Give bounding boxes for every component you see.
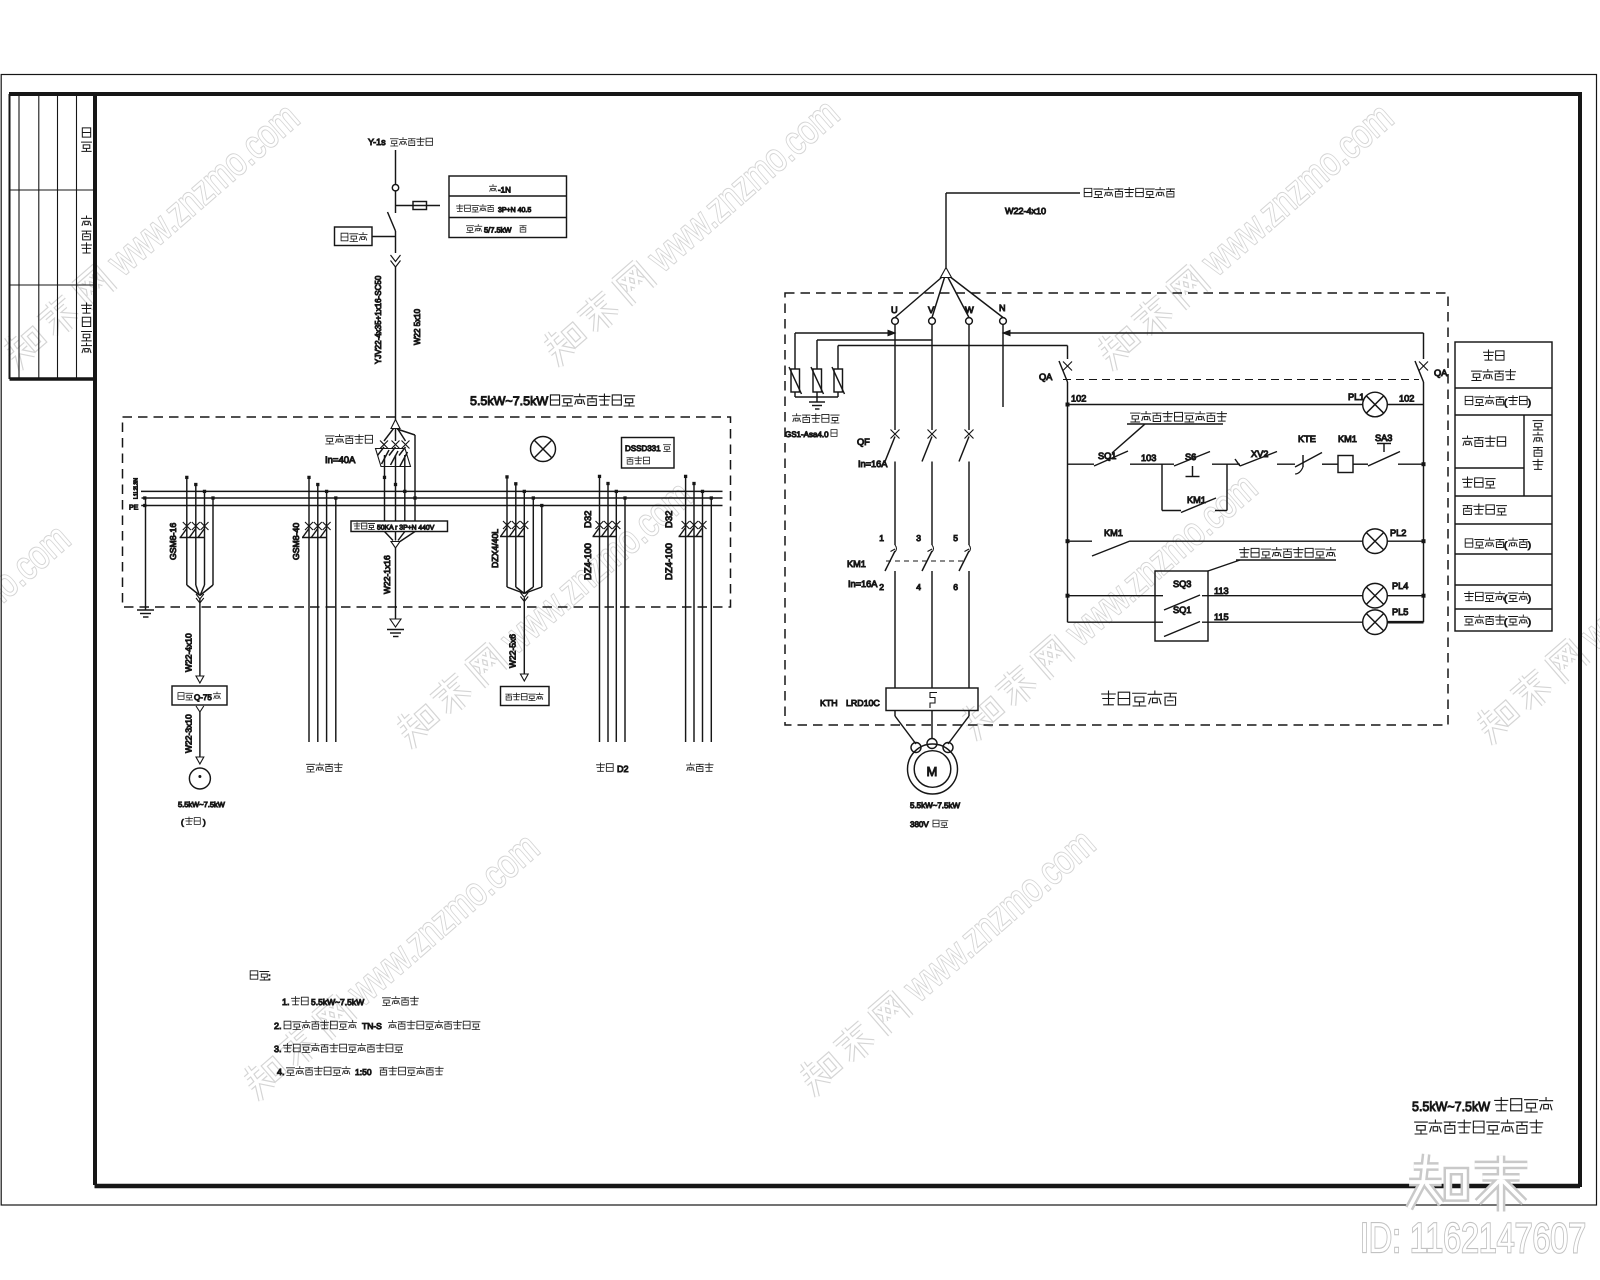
- motor M (5.5-7.5kW): [908, 739, 958, 795]
- svg-text:KTH: KTH: [820, 698, 838, 708]
- svg-text:QF: QF: [857, 437, 870, 447]
- surge protector SPD (60KA 3P+N): [351, 521, 448, 619]
- wire: N stub: [1002, 324, 1004, 407]
- svg-text:): ): [1528, 398, 1531, 408]
- svg-text:W22-4x10: W22-4x10: [184, 633, 194, 672]
- node: terminal N: [999, 303, 1006, 324]
- ground: PE earth drop: [137, 498, 154, 617]
- wire: control rail 5: [1068, 621, 1424, 623]
- svg-text:U: U: [891, 305, 898, 315]
- node: feeder splice (triangle): [895, 268, 1003, 318]
- svg-text:TN-S: TN-S: [362, 1021, 382, 1031]
- svg-text:DSSD331: DSSD331: [625, 444, 661, 453]
- ground: SPD earth electrode: [387, 619, 404, 637]
- svg-text:3: 3: [916, 533, 921, 543]
- svg-text::: :: [268, 972, 271, 983]
- svg-text:1.: 1.: [282, 997, 290, 1007]
- svg-text:5.5kW~7.5kW: 5.5kW~7.5kW: [470, 394, 548, 408]
- svg-text:KM1: KM1: [1187, 495, 1206, 505]
- svg-text:3.: 3.: [274, 1044, 282, 1054]
- svg-text:5.5kW~7.5kW: 5.5kW~7.5kW: [311, 997, 364, 1007]
- linkage: QA poles (dashed): [1063, 379, 1419, 381]
- switch QA (right pole): [1415, 333, 1448, 405]
- wire: U phase drop: [894, 324, 896, 430]
- svg-text:102: 102: [1071, 394, 1086, 404]
- breaker QF1 GSM8-16 branch: [180, 476, 215, 603]
- wire: branch1 cable W22-3x10: [184, 706, 204, 764]
- svg-text:GSM8-16: GSM8-16: [168, 523, 178, 560]
- svg-text:102: 102: [1399, 394, 1414, 404]
- notes text block: [250, 971, 480, 1077]
- contact KM1 auxiliary (self-hold): [1162, 464, 1227, 512]
- wire: motor leads: [895, 711, 969, 745]
- svg-text:): ): [203, 818, 206, 827]
- wire: right control rail: [1423, 405, 1425, 623]
- ground: arrester earth: [795, 397, 838, 409]
- svg-text:Q-75: Q-75: [194, 693, 212, 702]
- svg-text:V: V: [928, 305, 935, 315]
- label: distribution box title: [470, 394, 635, 408]
- svg-text:6: 6: [953, 582, 958, 592]
- svg-text:(: (: [181, 818, 184, 827]
- contactor KM1 main contacts (In=16A): [847, 545, 971, 688]
- breaker QF4 DZ4-100 D32 branch: [593, 475, 627, 742]
- busbar L3 line: [141, 490, 723, 492]
- label: SPD earth lead W22-1x16: [382, 555, 392, 594]
- label: feeder cable spec left: [374, 275, 383, 364]
- wire: control feed line (W tap to QA left): [838, 345, 1068, 347]
- label: pins 2 4 6: [879, 582, 958, 592]
- svg-text:113: 113: [1214, 586, 1229, 596]
- cable head arrow (down chevrons): [391, 255, 401, 267]
- thermal relay KTH LRD10C: [820, 688, 978, 711]
- label: QF0 name and rating: [325, 435, 373, 467]
- node: incoming supply label: [368, 137, 433, 147]
- svg-text:1:50: 1:50: [355, 1067, 372, 1077]
- svg-text:GSM8-40: GSM8-40: [291, 523, 301, 560]
- svg-text:SQ1: SQ1: [1173, 605, 1191, 615]
- svg-text:PL4: PL4: [1392, 581, 1408, 591]
- svg-text:5.5kW~7.5kW: 5.5kW~7.5kW: [1412, 1099, 1490, 1114]
- svg-text:PL2: PL2: [1390, 528, 1406, 538]
- node: terminal V: [928, 305, 935, 324]
- drawing title: [1412, 1098, 1553, 1135]
- arrester F1: [789, 333, 802, 397]
- wire: control return line (N tap to QA right): [1003, 330, 1424, 335]
- label: feeder cable W22-4x10: [1005, 206, 1046, 216]
- svg-text:W22-1x16: W22-1x16: [382, 555, 392, 594]
- arrester F2: [811, 340, 824, 397]
- metering box: [335, 227, 396, 246]
- meter DSSD331 (multi-function): [622, 438, 675, 469]
- svg-text:KTE: KTE: [1298, 434, 1316, 444]
- busbar N line: [142, 497, 723, 499]
- label: arrester name: [785, 414, 839, 439]
- svg-text:(: (: [1504, 540, 1507, 550]
- node 115: [1214, 612, 1229, 622]
- wire: control rail 2: [1068, 463, 1426, 466]
- svg-text:D32: D32: [664, 511, 675, 528]
- label: branch6 destination: [686, 763, 713, 772]
- svg-text:5: 5: [953, 533, 958, 543]
- svg-text:2: 2: [879, 582, 884, 592]
- svg-text:Y-1s: Y-1s: [368, 137, 386, 147]
- svg-text:D2: D2: [617, 764, 629, 774]
- wire: incoming feeder drop: [395, 150, 397, 184]
- contact XV2: [1235, 449, 1277, 466]
- label: GSM8-40: [291, 523, 301, 560]
- contact KTE (time relay): [1295, 434, 1322, 474]
- svg-text:(: (: [1504, 594, 1507, 604]
- svg-text:KM1: KM1: [1338, 434, 1357, 444]
- svg-text:SA3: SA3: [1375, 433, 1392, 443]
- svg-text:PL1: PL1: [1348, 392, 1364, 402]
- label: DZX4/40L: [490, 529, 500, 568]
- start control box (dashed enclosure): [785, 293, 1448, 725]
- svg-text:5.5kW~7.5kW: 5.5kW~7.5kW: [910, 801, 960, 810]
- breaker QF3 DZX4/40L branch: [500, 476, 543, 602]
- svg-text:KM1: KM1: [1104, 528, 1123, 538]
- svg-text:W: W: [965, 305, 974, 315]
- node 102 (right): [1399, 394, 1414, 404]
- label: busbar phase marks: [129, 478, 140, 512]
- busbar PE line: [141, 504, 722, 506]
- load box: pump switch box: [172, 686, 227, 705]
- svg-text:W22-4x10: W22-4x10: [1005, 206, 1046, 216]
- node 103: [1141, 453, 1156, 463]
- svg-text:XV2: XV2: [1251, 449, 1268, 459]
- svg-text:103: 103: [1141, 453, 1156, 463]
- node 102 (left): [1066, 394, 1086, 406]
- fuse FU1 branch: [396, 202, 441, 210]
- svg-text:DZX4/40L: DZX4/40L: [490, 529, 500, 568]
- svg-text:W22-5x6: W22-5x6: [508, 634, 518, 668]
- svg-text:DZ4-100: DZ4-100: [583, 543, 594, 580]
- svg-text:W22 5x10: W22 5x10: [413, 308, 422, 345]
- arrester F3: [832, 346, 845, 398]
- annotation: pump normal level switch: [1208, 548, 1336, 572]
- feeder description table: [449, 176, 567, 238]
- lamp PL5: [1363, 607, 1409, 635]
- wire: feeder from pump distribution box: [946, 193, 1080, 268]
- svg-text:(: (: [1504, 398, 1507, 408]
- svg-text:): ): [1528, 594, 1531, 604]
- svg-text:1: 1: [879, 533, 884, 543]
- svg-text:115: 115: [1214, 612, 1229, 622]
- label: branch5 destination: [596, 763, 628, 774]
- svg-text:In=16A: In=16A: [858, 459, 888, 469]
- svg-text:QA: QA: [1434, 368, 1448, 378]
- node: terminal U: [891, 305, 898, 324]
- svg-text:QA: QA: [1039, 372, 1053, 382]
- label: pins 1 3 5: [879, 533, 958, 543]
- lamp PL2: [1363, 528, 1407, 554]
- svg-text:50KA r 3P+N 440V: 50KA r 3P+N 440V: [377, 525, 435, 532]
- node: isolator terminal circle: [392, 185, 398, 191]
- wire: control rail 3: [1066, 540, 1425, 543]
- coil KM1 (contactor coil): [1338, 434, 1357, 472]
- svg-text:): ): [1528, 617, 1531, 627]
- contact S61 (manual switch): [1174, 452, 1210, 477]
- svg-text:In=16A: In=16A: [848, 579, 878, 589]
- svg-text:-1N: -1N: [498, 186, 511, 195]
- annotation table: function labels: [1455, 342, 1552, 631]
- svg-text:M: M: [926, 764, 937, 779]
- svg-text:ID: 1162147607: ID: 1162147607: [1360, 1214, 1586, 1261]
- float switch box SQ3/SQ1: [1155, 571, 1208, 641]
- svg-text:PE: PE: [129, 505, 139, 512]
- svg-text:W22-3x10: W22-3x10: [184, 714, 194, 753]
- load box: valve control: [501, 687, 550, 706]
- wire: main feeder vertical: [395, 267, 397, 420]
- contact SQ1 (inlet float switch): [1094, 451, 1128, 466]
- svg-text:4.: 4.: [277, 1067, 285, 1077]
- svg-text:PL5: PL5: [1392, 607, 1408, 617]
- svg-text:SQ3: SQ3: [1173, 579, 1191, 589]
- node: terminal W: [965, 305, 974, 324]
- label: branch2 destination: [306, 763, 342, 772]
- svg-text:(: (: [1504, 617, 1507, 627]
- switch QS1 (disconnect blade): [388, 212, 396, 231]
- node 113: [1214, 586, 1229, 596]
- svg-text:KM1: KM1: [847, 559, 866, 569]
- svg-text:): ): [1528, 540, 1531, 550]
- svg-text:In=40A: In=40A: [325, 455, 356, 466]
- motor M1 (pump motor): [178, 768, 226, 827]
- breaker QF (In=16A): [857, 430, 974, 546]
- label: GSM8-16: [168, 523, 178, 560]
- lamp symbol (panel light): [531, 437, 556, 462]
- svg-text:GS1-Asa4.0: GS1-Asa4.0: [785, 430, 829, 439]
- wire: left control rail: [1067, 405, 1069, 623]
- breaker QF2 GSM8-40 branch: [302, 476, 337, 742]
- breaker QF0 (molded case, In=40A): [376, 420, 411, 522]
- label: DZ4-100 D32 (branch6): [664, 511, 675, 580]
- svg-text:2.: 2.: [274, 1021, 282, 1031]
- contact KM1 (run indication): [1092, 528, 1130, 556]
- label: start control box title: [1102, 691, 1177, 706]
- svg-text:LRD10C: LRD10C: [846, 698, 880, 708]
- label: DZ4-100 D32 (branch5): [583, 511, 594, 580]
- wire: N bypass of QF0: [397, 429, 416, 521]
- lamp PL1: [1348, 392, 1387, 417]
- svg-text:380V: 380V: [910, 820, 929, 829]
- wire: control rail 4: [1066, 594, 1425, 597]
- wire: arrester feed line 2 (V tap): [817, 339, 932, 341]
- wire: W phase drop: [968, 324, 970, 430]
- svg-text:YJV22-4x35+1x16-SC50: YJV22-4x35+1x16-SC50: [374, 275, 383, 364]
- svg-text:5.5kW~7.5kW: 5.5kW~7.5kW: [178, 800, 226, 809]
- wire: segment below terminal: [395, 191, 397, 213]
- breaker QF5 DZ4-100 D32 branch: [679, 475, 713, 742]
- wire: branch4 cable W22-5x6: [508, 598, 529, 681]
- lamp PL4: [1363, 581, 1409, 608]
- label: feeder cable spec right: [413, 308, 422, 345]
- wire: V phase drop: [931, 324, 933, 430]
- wire: branch1 cable W22-4x10: [184, 599, 204, 683]
- wire: arrester feed line 1 (U tap): [795, 330, 895, 335]
- svg-text:S6: S6: [1185, 452, 1196, 462]
- svg-text:3P+N 40.5: 3P+N 40.5: [498, 207, 531, 214]
- svg-text:L1L2L3N: L1L2L3N: [134, 478, 140, 499]
- wire: feeder below switch: [395, 231, 397, 253]
- svg-text:DZ4-100: DZ4-100: [664, 543, 675, 580]
- svg-text:4: 4: [916, 582, 921, 592]
- svg-text:N: N: [999, 303, 1006, 313]
- switch QA (left pole): [1039, 346, 1072, 405]
- distribution box (dashed enclosure): [123, 417, 731, 607]
- svg-text:D32: D32: [583, 511, 594, 528]
- label: motor rating: [910, 801, 960, 829]
- wire: control rail 1 (PL1 row): [1068, 404, 1424, 406]
- annotation: inlet float switch: [1112, 412, 1226, 454]
- contact SA3 (selector): [1368, 433, 1400, 466]
- label: feeder source: [1084, 188, 1174, 198]
- svg-text:5/7.5kW: 5/7.5kW: [484, 226, 512, 235]
